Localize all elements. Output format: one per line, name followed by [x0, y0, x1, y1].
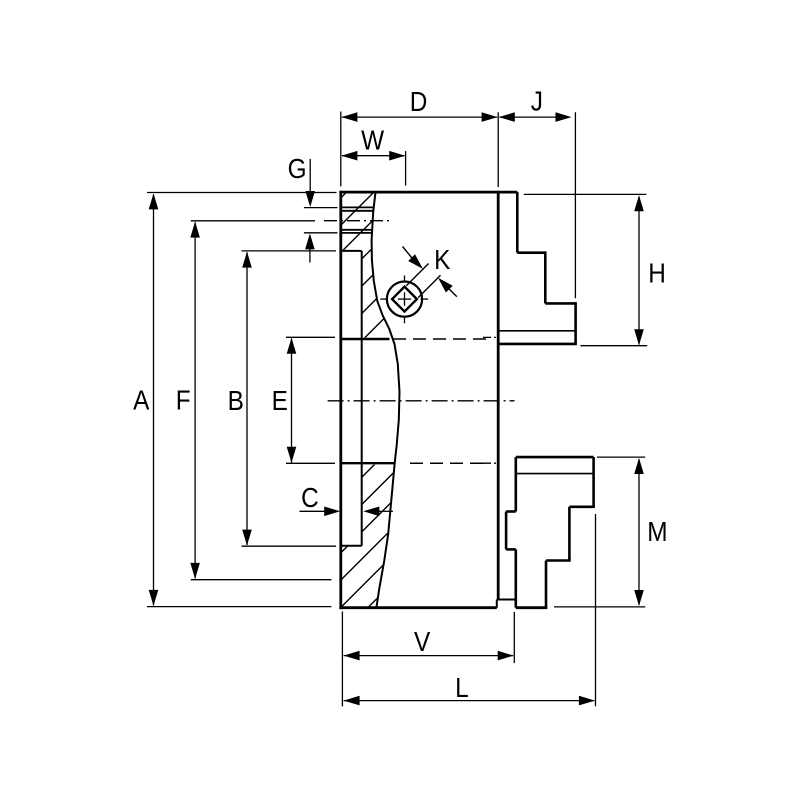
dim J right extension	[574, 112, 576, 298]
chuck body top edge	[339, 191, 517, 194]
arrowheads M	[634, 458, 644, 474]
svg-text:V: V	[414, 625, 431, 657]
arrowheads K	[408, 254, 423, 269]
arrowheads A	[149, 193, 159, 209]
svg-text:G: G	[288, 152, 307, 184]
bottom jaw tab bottom	[506, 548, 516, 551]
top jaw left edge	[516, 192, 519, 253]
svg-text:B: B	[228, 385, 244, 417]
dim F extension bottom	[191, 579, 332, 581]
operating socket circle	[387, 282, 422, 317]
svg-text:C: C	[301, 481, 319, 513]
bottom jaw tab left edge	[505, 512, 508, 550]
bottom jaw step 1 horizontal	[569, 505, 595, 508]
dim A line	[153, 195, 155, 606]
svg-text:A: A	[133, 384, 150, 416]
mounting hole bore line bottom	[341, 229, 373, 231]
dim G upper stub	[304, 207, 338, 209]
main axis centerline (dash-dot)	[328, 400, 515, 402]
bottom jaw top edge	[516, 456, 594, 459]
arrowheads H	[634, 195, 644, 211]
dim D/W left extension	[340, 112, 342, 187]
top jaw centerline stub (dash-dot)	[483, 336, 498, 338]
bottom jaw tab top	[506, 510, 516, 513]
dim F line	[194, 222, 196, 578]
dim G leader above	[309, 159, 311, 193]
dim E extension bottom	[286, 462, 335, 464]
svg-text:E: E	[272, 385, 288, 417]
svg-text:J: J	[531, 85, 543, 117]
dim C inner stem	[378, 510, 393, 512]
dim H line	[638, 197, 640, 345]
svg-text:L: L	[455, 671, 469, 703]
dim B extension bottom	[242, 545, 337, 547]
bottom jaw left edge upper	[514, 457, 517, 511]
dim B line	[246, 252, 248, 545]
dim K arrow stems	[403, 247, 413, 259]
bottom jaw step 2 vertical	[545, 561, 548, 608]
dim E line	[291, 339, 293, 463]
dim M extension bottom	[554, 606, 645, 608]
central bore bottom edge	[341, 462, 395, 464]
dim G lower stub	[304, 232, 338, 234]
bottom jaw right edge	[592, 457, 595, 507]
arrowheads E	[287, 338, 297, 354]
jaw-guide notch at bottom right	[497, 599, 516, 601]
arrowheads G	[305, 191, 315, 207]
rear recess top edge	[341, 250, 362, 252]
dim K extension line upper	[406, 264, 428, 286]
dim D line	[342, 116, 497, 118]
top jaw base bottom edge	[498, 343, 577, 346]
chuck body left edge	[339, 191, 342, 609]
dim G leader below	[309, 248, 311, 263]
arrowheads C	[324, 507, 340, 517]
svg-text:K: K	[434, 243, 451, 275]
socket centerline ticks	[404, 276, 406, 282]
dim V line	[344, 655, 513, 657]
rear recess vertical	[361, 251, 363, 546]
dim J line	[499, 116, 556, 118]
svg-text:H: H	[648, 257, 666, 289]
bottom jaw base inner line	[516, 473, 594, 475]
dim L line	[344, 700, 595, 702]
svg-text:F: F	[176, 384, 191, 416]
central bore top edge	[341, 338, 390, 340]
mounting hole thread line bottom	[341, 232, 373, 234]
top jaw step 1 vertical	[544, 251, 547, 303]
dim V right extension	[513, 612, 515, 663]
chuck body right edge	[497, 191, 500, 600]
dim W line	[342, 155, 404, 157]
dim W right extension	[405, 151, 407, 186]
dim M line	[638, 459, 640, 605]
bottom jaw centerline stub (dash-dot)	[483, 462, 498, 464]
dim V/L left extension	[341, 612, 343, 707]
dim M extension top	[597, 456, 645, 458]
dim F extension top	[191, 220, 315, 222]
central bore top hidden line (dashed)	[393, 338, 489, 340]
dim E extension top	[286, 336, 335, 338]
section hatching 45deg	[0, 110, 800, 650]
back-plate break line (freeform)	[372, 192, 400, 608]
dim H extension top	[524, 193, 647, 195]
rear recess bottom edge	[341, 545, 362, 547]
chuck body bottom edge	[339, 606, 496, 609]
square socket (diamond)	[392, 287, 417, 312]
dim D right extension	[497, 112, 499, 187]
dim K extension line lower	[418, 275, 440, 297]
dim L right extension	[595, 514, 597, 706]
arrowheads V	[344, 651, 360, 661]
bottom jaw left edge lower	[514, 549, 517, 607]
arrowheads D	[341, 112, 357, 122]
arrowheads F	[190, 222, 200, 238]
dim A extension top	[147, 192, 337, 194]
svg-text:M: M	[647, 515, 667, 547]
bottom jaw bottom edge	[516, 606, 548, 609]
top jaw step 2 horizontal	[545, 302, 575, 305]
arrowheads L	[344, 696, 360, 706]
svg-text:W: W	[361, 124, 384, 156]
socket center cross	[398, 298, 411, 300]
dim A extension bottom	[147, 606, 331, 608]
top jaw base top line	[498, 330, 575, 332]
central bore bottom hidden line (dashed)	[410, 462, 484, 464]
top jaw right edge	[574, 302, 577, 344]
mounting hole thread line top	[341, 206, 374, 208]
mounting hole bore line top	[341, 210, 374, 212]
dim B extension top	[242, 250, 337, 252]
mounting hole axis (dash-dot)	[324, 220, 391, 222]
svg-text:D: D	[410, 86, 428, 118]
top jaw step 1 horizontal	[517, 251, 545, 254]
arrowheads J	[499, 112, 515, 122]
dim H extension bottom	[580, 345, 647, 347]
bottom jaw step 2 horizontal	[546, 559, 571, 562]
arrowheads W	[341, 151, 357, 161]
dim C outer stem	[300, 510, 326, 512]
arrowheads B	[242, 252, 252, 268]
bottom jaw step 1 vertical	[568, 507, 571, 561]
